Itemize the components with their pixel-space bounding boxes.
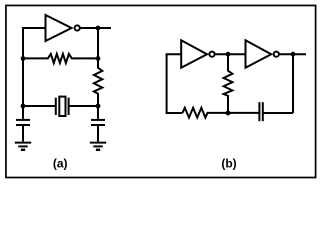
svg-text:(a): (a) bbox=[53, 157, 68, 171]
svg-text:(b): (b) bbox=[221, 157, 236, 171]
